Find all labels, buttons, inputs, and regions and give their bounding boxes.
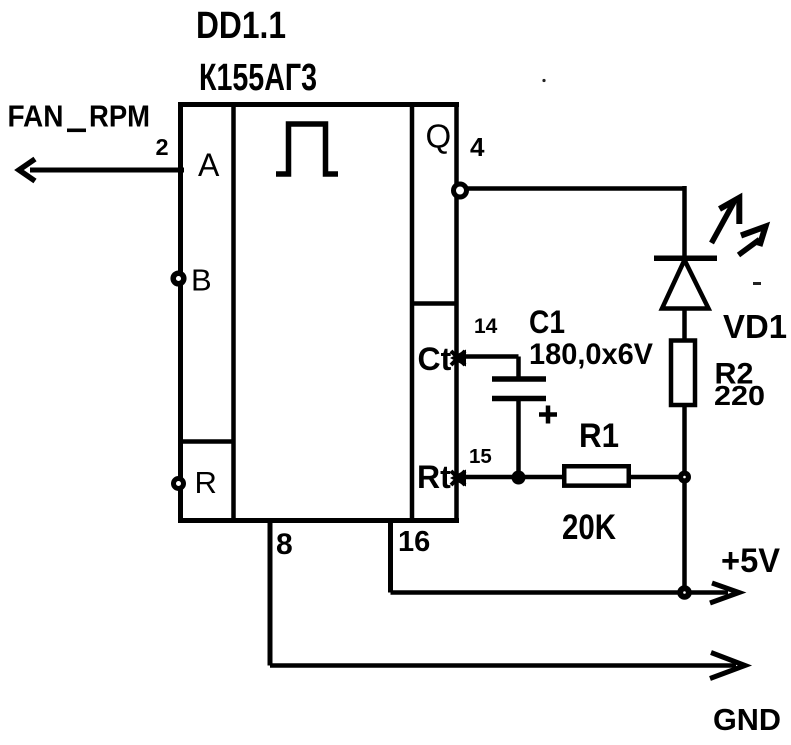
chip DD1.1 body outline — [178, 102, 459, 522]
svg-text:RPM: RPM — [89, 100, 150, 134]
svg-text:A: A — [198, 147, 220, 183]
capacitor C1 top plate — [492, 376, 546, 382]
svg-text:Q: Q — [426, 118, 452, 155]
pulse symbol inside chip — [276, 124, 338, 174]
svg-text:VD1: VD1 — [723, 308, 787, 345]
svg-text:8: 8 — [276, 528, 293, 561]
svg-text:15: 15 — [469, 445, 492, 468]
svg-text:Rt: Rt — [417, 459, 451, 495]
stray dash — [753, 282, 761, 285]
wire pin 16 down — [388, 520, 393, 593]
LED VD1 cathode bar — [654, 255, 717, 261]
svg-text:2: 2 — [156, 134, 169, 160]
wire LED to R2 — [682, 308, 687, 340]
wire Q output vertical down to LED — [682, 186, 687, 256]
arrowhead +5V — [710, 583, 739, 603]
svg-text:220: 220 — [714, 380, 765, 411]
svg-text:14: 14 — [474, 315, 498, 338]
wire Q output horizontal — [467, 186, 685, 191]
svg-text:+5V: +5V — [721, 542, 780, 580]
capacitor C1 bottom plate — [492, 396, 546, 402]
junction dot +5V rail — [677, 585, 692, 600]
stray dot — [542, 79, 545, 82]
wire GND rail — [270, 663, 736, 668]
arrowhead GND — [710, 653, 745, 679]
svg-text:R: R — [195, 465, 217, 500]
svg-text:К155АГ3: К155АГ3 — [199, 57, 317, 99]
wire pin 8 down — [268, 520, 273, 666]
pin Rt marker — [450, 470, 466, 487]
wire R1 to R2 branch — [631, 475, 685, 480]
LED light arrow 1 — [712, 198, 740, 243]
svg-text:B: B — [191, 263, 212, 298]
pin Ct marker — [450, 350, 466, 367]
wire +5V rail — [391, 590, 729, 595]
junction dot capacitor-Rt — [512, 471, 526, 485]
svg-text:GND: GND — [713, 702, 781, 737]
wire R2 down to +5V rail — [682, 405, 687, 593]
capacitor C1 plus sign — [539, 406, 557, 424]
resistor R1 body — [564, 466, 629, 485]
svg-text:20K: 20K — [562, 508, 616, 547]
wire pin A to FAN_RPM arrow — [30, 168, 184, 173]
svg-text:DD1.1: DD1.1 — [196, 5, 286, 47]
svg-text:180,0x6V: 180,0x6V — [529, 338, 653, 371]
junction dot R1-R2 — [678, 471, 691, 484]
svg-text:C1: C1 — [529, 304, 565, 340]
LED light arrow 2 — [739, 227, 766, 256]
pin B inversion circle — [173, 273, 184, 284]
wire Rt to R1 — [462, 475, 562, 480]
arrowhead FAN_RPM — [19, 159, 35, 181]
svg-text:4: 4 — [470, 132, 485, 162]
svg-text:16: 16 — [398, 526, 430, 558]
pin R inversion circle — [174, 479, 184, 489]
wire capacitor to Rt rail — [516, 400, 521, 477]
svg-text:Ct: Ct — [418, 341, 452, 377]
resistor R2 body — [671, 341, 695, 406]
svg-text:FAN: FAN — [8, 100, 64, 134]
LED VD1 triangle — [662, 260, 709, 309]
wire Ct to capacitor — [462, 357, 519, 379]
pin Q inversion circle — [454, 184, 467, 197]
svg-text:R1: R1 — [579, 417, 619, 455]
